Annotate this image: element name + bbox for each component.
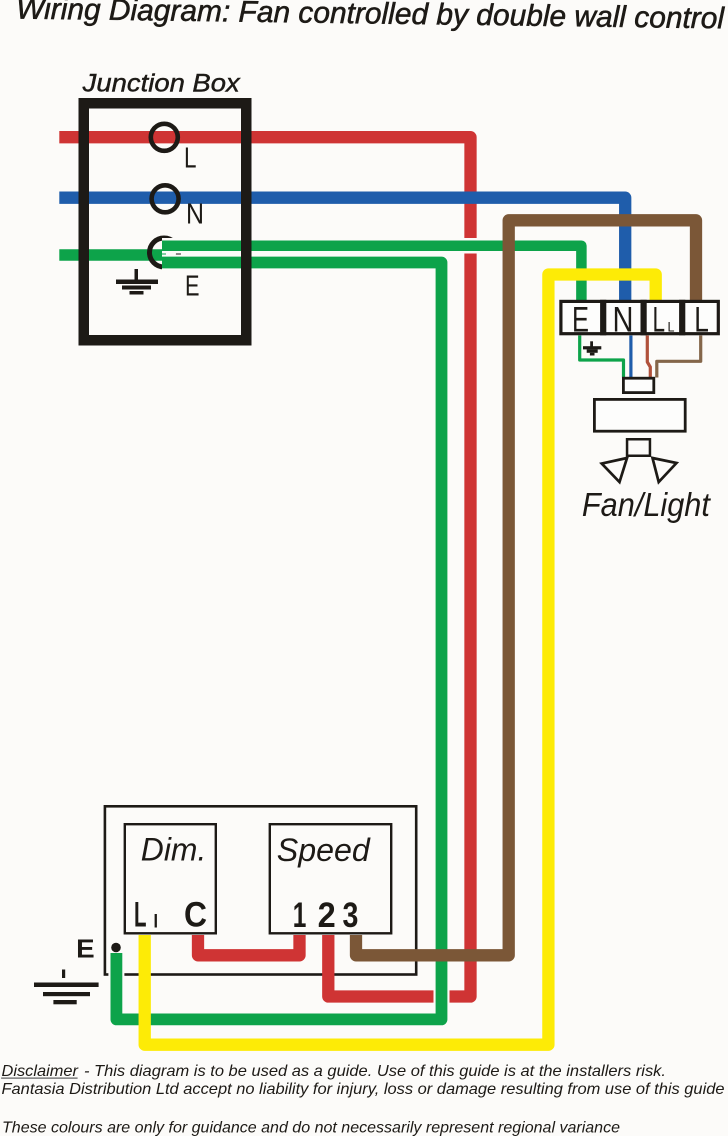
fan terminal block [561, 301, 718, 333]
terminal divider 1 [600, 300, 606, 336]
thin wire brown fan [657, 336, 701, 378]
svg-text:Dim.: Dim. [141, 832, 207, 868]
ground symbol under fan E [583, 341, 601, 355]
terminal divider 2 [641, 300, 647, 336]
wire brown: fan L to speed 3 [356, 220, 696, 955]
svg-text:E: E [185, 271, 200, 303]
svg-text:E: E [572, 300, 589, 339]
terminal divider 3 [679, 300, 685, 336]
svg-text:L: L [184, 143, 197, 175]
ground symbol junction box [116, 269, 158, 295]
svg-text:L: L [694, 300, 709, 339]
wall control outer box [105, 806, 416, 974]
node E dot [111, 943, 121, 953]
junction box frame [84, 103, 247, 340]
svg-text:L: L [134, 896, 147, 935]
fan connector box [623, 378, 653, 392]
wire blue: N to fan N [59, 198, 625, 301]
svg-text:Fan/Light: Fan/Light [582, 486, 712, 523]
svg-text:C: C [184, 896, 207, 935]
speed box [270, 824, 391, 933]
svg-text:- This diagram is to be used a: - This diagram is to be used as a guide.… [84, 1063, 666, 1080]
wire red link: dim C to speed 1 [198, 935, 300, 955]
wire green feed into junction box [59, 249, 166, 261]
svg-text:Fantasia Distribution Ltd acce: Fantasia Distribution Ltd accept no liab… [2, 1081, 725, 1098]
svg-text:Junction Box: Junction Box [82, 69, 242, 97]
wire green lower: E to wall control E [116, 263, 441, 1020]
thin wire maroon fan [647, 336, 650, 378]
light cone left [602, 458, 627, 482]
svg-text:N: N [186, 199, 204, 231]
dimmer box [125, 824, 216, 933]
wire green upper casing [162, 246, 581, 301]
fan body [594, 399, 685, 431]
svg-text:1: 1 [293, 896, 307, 935]
svg-text:Speed: Speed [277, 832, 371, 868]
svg-text:2: 2 [318, 896, 336, 935]
svg-text:3: 3 [343, 896, 359, 935]
terminal circle L [151, 124, 178, 151]
terminal circle N [152, 185, 179, 212]
light fitting box [627, 439, 650, 456]
wire yellow: dim L to fan L [145, 275, 656, 1045]
svg-text:I: I [154, 912, 159, 933]
svg-text:N: N [613, 300, 634, 339]
svg-text:L: L [668, 319, 675, 335]
wire red main: L to speed 2 [59, 137, 470, 996]
svg-text:L: L [653, 300, 666, 339]
svg-text:E: E [76, 934, 95, 964]
ground symbol bottom left [34, 970, 99, 1005]
wire green lower casing [116, 263, 441, 1020]
light cone right [653, 458, 677, 482]
terminal circle E [150, 238, 179, 267]
wire green upper: E to fan E [162, 246, 581, 301]
thin wire blue fan [629, 336, 632, 378]
thin wire green fan [580, 336, 624, 378]
svg-text:These colours are only for gui: These colours are only for guidance and … [2, 1120, 620, 1136]
